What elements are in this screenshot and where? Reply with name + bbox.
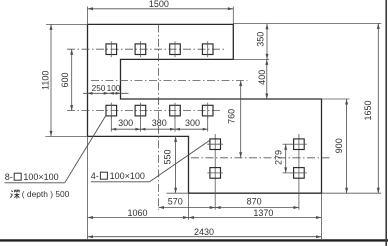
anchor pocket row1 #4 <box>202 41 213 57</box>
dimension 279 <box>274 144 288 173</box>
svg-text:550: 550 <box>163 149 173 164</box>
anchor pocket 4group top-left <box>207 139 223 150</box>
dimension 1060 <box>88 208 189 219</box>
drawing border bottom <box>0 239 388 241</box>
extension line top-right (1500 right) <box>232 7 234 25</box>
extension tick 279 top <box>283 143 293 145</box>
centerline lower block axis <box>191 157 331 159</box>
svg-text:300: 300 <box>185 118 200 128</box>
extension line 1100 top <box>46 23 88 25</box>
dimension 760 <box>227 81 243 158</box>
dimension 1370 <box>189 208 322 219</box>
extension line 550 bottom <box>167 192 189 194</box>
extension tick column 1 to 300/380/300 dim <box>110 117 112 132</box>
dimension 550 <box>163 136 178 193</box>
extension line top edge to 1650 <box>233 22 381 24</box>
centerline row1 horizontal <box>67 48 224 50</box>
extension line step edge down <box>188 193 190 220</box>
extension tick column 3 to 300/380/300 dim <box>174 117 176 132</box>
extension tick 279 bottom <box>283 172 293 174</box>
dimension 300/380/300 row <box>111 118 207 130</box>
leader line 4-square group <box>150 141 210 182</box>
svg-text:570: 570 <box>168 197 183 207</box>
centerline machine axis upper <box>91 80 248 82</box>
leader underline 4-square group <box>91 181 150 183</box>
anchor pocket row1 #1 <box>106 41 117 57</box>
svg-text:760: 760 <box>227 109 237 124</box>
leader line 8-square group <box>65 115 107 183</box>
dimension 350 <box>256 24 269 60</box>
label depth 500 <box>10 189 69 199</box>
svg-text:2430: 2430 <box>194 227 214 237</box>
anchor pocket 4group bottom-right <box>291 168 307 179</box>
dimension 900 <box>334 99 348 193</box>
anchor pocket 4group bottom-left <box>207 168 223 179</box>
anchor pocket row2 #3 <box>170 103 181 119</box>
svg-text:100×100: 100×100 <box>110 171 145 181</box>
svg-text:600: 600 <box>60 72 70 87</box>
svg-text:8-: 8- <box>5 172 13 182</box>
anchor pocket 4group top-right <box>291 139 307 150</box>
extension line top-left (1500 left) <box>87 7 89 25</box>
dimension 1100 <box>40 24 52 136</box>
anchor pocket row1 #2 <box>135 41 146 57</box>
drawing border right <box>385 0 387 246</box>
svg-text:300: 300 <box>118 118 133 128</box>
label 8-square group <box>5 172 59 182</box>
svg-text:1370: 1370 <box>253 208 273 218</box>
dimension 250 / 100 <box>83 83 129 95</box>
svg-text:279: 279 <box>274 150 284 165</box>
leader underline 8-square group <box>5 182 65 184</box>
extension tick column 2 to 300/380/300 dim <box>139 117 141 132</box>
dimension 870 <box>215 197 299 209</box>
svg-text:400: 400 <box>257 70 267 85</box>
centerline main vertical <box>158 24 160 209</box>
svg-text:1060: 1060 <box>127 208 147 218</box>
anchor pocket row2 #1 <box>106 103 117 119</box>
svg-text:1650: 1650 <box>363 100 373 120</box>
extension line ledge to 350/400 <box>233 58 269 60</box>
extension line 1100 bottom <box>46 135 88 137</box>
svg-text:250: 250 <box>92 83 106 93</box>
extension line bottom edge to 900/1650 <box>322 192 382 194</box>
dimension 600 <box>60 49 73 110</box>
dimension 1650 <box>363 23 380 193</box>
extension line 900 top <box>322 98 350 100</box>
anchor pocket row2 #2 <box>135 103 146 119</box>
label 4-square group <box>91 171 145 181</box>
svg-text:870: 870 <box>247 197 262 207</box>
anchor pocket row1 #3 <box>170 41 181 57</box>
svg-text:( depth ) 500: ( depth ) 500 <box>22 189 70 199</box>
svg-text:100×100: 100×100 <box>23 172 58 182</box>
svg-text:1500: 1500 <box>149 0 169 9</box>
dimension 570 <box>159 197 216 209</box>
dimension 1500 <box>88 0 234 10</box>
column line left anchor pair <box>214 134 216 210</box>
svg-text:1100: 1100 <box>40 71 50 90</box>
svg-text:900: 900 <box>334 138 344 153</box>
extension tick column 4 to 300/380/300 dim <box>207 117 209 132</box>
svg-text:100: 100 <box>107 83 121 93</box>
svg-text:380: 380 <box>152 118 167 128</box>
dimension 400 <box>257 59 268 99</box>
centerline row2 horizontal <box>67 110 222 112</box>
svg-text:350: 350 <box>256 32 266 47</box>
anchor pocket row2 #4 <box>202 103 213 119</box>
svg-text:4-: 4- <box>91 171 99 181</box>
dimension 2430 <box>88 227 322 238</box>
extension line left edge down <box>87 136 89 239</box>
extension line right edge down <box>321 193 323 239</box>
column line right anchor pair <box>298 134 300 210</box>
foundation outline <box>88 24 322 193</box>
